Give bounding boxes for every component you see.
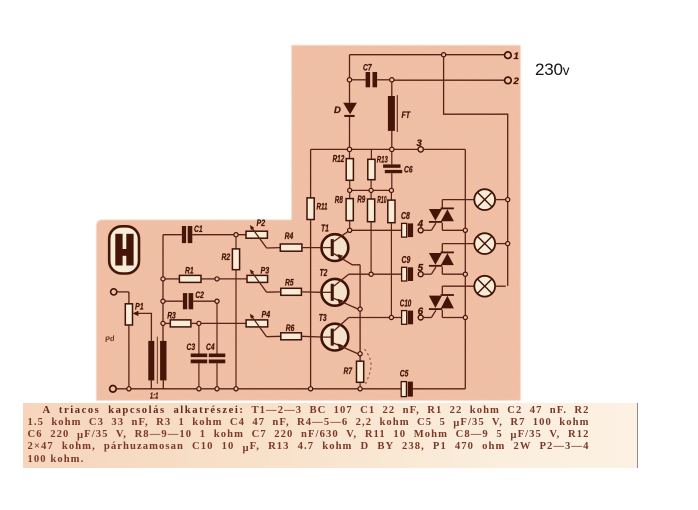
wire: FT down to node [391,131,393,147]
junction: C2 left [161,299,165,303]
svg-text:R13: R13 [377,155,388,166]
wire: to R10 [390,193,392,201]
triac 2 [429,252,454,267]
junction: lamp 2 on right rail [506,242,510,246]
junction: R1 right / C4 line top [215,277,219,281]
wire: R2 down to bottom rail [235,270,237,387]
junction: C3 on bottom rail [197,387,201,391]
wire: P1 bottom to rail [128,325,130,387]
wire: triac 3 bottom to common line [442,317,463,319]
svg-text:1: 1 [514,51,519,62]
potentiometer P4 [246,320,268,327]
caption strip [23,403,639,468]
svg-text:FT: FT [402,110,411,121]
svg-text:R7: R7 [344,366,353,377]
diode D [343,103,357,115]
transistor T1 [322,230,361,264]
wire: R10 down to T3 collector node [390,223,392,316]
junction: R2 on bottom rail [234,387,238,391]
wire: input terminal to P1 top [117,291,129,293]
wire: triac 3 to lamp 3 [442,285,474,287]
capacitor C7 right plate [373,72,378,87]
resistor R4 [280,244,302,251]
junction: P1 on bottom rail [127,387,131,391]
junction: R2 top on C1 wire [234,233,238,237]
svg-text:P1: P1 [135,302,144,313]
node 4 [418,228,423,233]
caption text [28,405,590,417]
capacitor C2 left plate [183,293,187,309]
wire: R12 bottom [349,180,351,188]
junction: R9 line on row 2 [369,272,373,276]
wire: left vertical line C1-corner to transformer [162,235,164,341]
wire: triac 1 top terminal [441,200,443,208]
wire: C6 down to junction row [391,173,393,188]
wire: T2 collector row to C9 [349,273,402,275]
potentiometer P3 [247,275,268,282]
svg-text:R11: R11 [317,202,328,213]
capacitor C4 top plate [209,354,226,358]
wire: triac 1 bottom to common line [442,229,463,231]
wire: junction to R2 [235,237,237,249]
wire: node row down to R11 [310,149,312,198]
wire: node row between D and FT junctions [352,148,390,150]
junction: lamp 1 on right rail [506,198,510,202]
transformer Tr windings [148,337,166,384]
wire: C4 to bottom rail [216,363,218,386]
svg-text:C1: C1 [194,224,203,235]
resistor R7 [357,361,364,382]
wire: primary bottom to rail [150,380,152,388]
wire: P1 wiper from transformer primary [136,313,151,341]
svg-text:P2: P2 [257,218,266,229]
svg-text:C3: C3 [187,342,196,353]
wire: left line to R1 [165,278,179,280]
junction: triac 3 on common line [463,315,467,319]
wire: R8 to T1 collector node [349,221,351,229]
wire: C1 to P2 [192,234,246,236]
wire: diode cathode down to node [349,117,351,147]
transistor T3 [322,318,359,354]
transistor T2 [322,274,359,309]
svg-text:C6: C6 [404,165,413,176]
svg-text:1:1: 1:1 [150,391,159,400]
wire: node row left arm to R11 drop [311,148,348,150]
svg-text:Pd: Pd [104,334,115,344]
junction: R7 on bottom rail [358,387,362,391]
wire: R1 to junction [201,278,215,280]
svg-text:2: 2 [513,76,520,87]
lamp 1 [474,189,495,210]
svg-text:C7: C7 [363,63,372,74]
wire: C2 right lead [193,300,215,302]
wire: node 6 to triac 3 gate [423,317,431,319]
wire: second rail to terminal 2 [394,79,505,81]
svg-text:R5: R5 [285,278,294,289]
wire: P3 wiper to R5 [267,291,281,293]
wire: to R12 top [349,152,351,159]
capacitor C10 [402,311,407,325]
wire: lamp 3 to right rail [495,285,506,287]
resistor R13 [368,159,375,179]
wire: C7 right node down to FT [391,82,393,96]
svg-text:T2: T2 [320,268,328,279]
wire: T1 collector row to C8 [352,229,402,231]
junction: diode bottom node [347,147,351,151]
node 6 [418,315,423,320]
junction: triac 1 on common line [463,228,467,232]
wire: junction to P3 [219,278,247,280]
junction C6/R10 [389,188,393,192]
wire: R9 down to T2 collector node [370,222,372,272]
wire: node row toward node 3 [394,148,418,150]
wire: lamp 1 to right rail [495,199,506,201]
wire: left line to R3 [165,322,170,324]
scan grain overlay [96,45,520,400]
svg-text:R3: R3 [167,311,176,322]
wire: bottom rail right of C5 [413,388,465,390]
wire: triac 2 to lamp 2 [442,243,474,245]
capacitor C1 right plate [188,226,193,243]
fuse/coil FT body [388,96,395,131]
wire: triac 2 bottom to common line [442,273,463,275]
wire: right vertical line (triac common) [464,149,466,388]
capacitor C5 [401,382,406,397]
wire: secondary bottom to rail [162,380,164,388]
svg-text:3: 3 [417,138,423,149]
junction: R3 left [161,321,165,325]
wire: left line to C2 [165,300,183,302]
wire: junction to P4 [201,322,246,324]
svg-text:T1: T1 [321,223,329,234]
wire: R7 to bottom rail [359,382,361,386]
resistor R1 [179,275,201,282]
svg-text:C4: C4 [206,342,215,353]
wire: corner to C1 [163,234,182,236]
wire: triac 2 top terminal [441,244,443,252]
svg-text:T3: T3 [319,313,327,324]
capacitor C2 right plate [189,293,194,309]
junction: T1 collector node [348,228,352,232]
svg-text:P3: P3 [261,265,270,276]
capacitor C8 [402,223,407,237]
svg-text:5: 5 [418,263,424,274]
wire: C7 left lead [352,79,366,81]
node 3 [418,147,423,152]
wire: C3 to bottom rail [198,363,200,386]
junction on top rail [442,53,446,57]
wire: R5 to T2 base [301,291,321,293]
svg-text:R1: R1 [185,265,194,276]
wire: drop from top rail to C7 left node [349,55,351,78]
capacitor C4 bottom plate [209,360,226,364]
wire: triac 2 bottom terminal [441,267,443,275]
resistor R10 [388,200,395,223]
svg-text:R6: R6 [286,323,295,334]
wire: node 3 to right drop line [423,148,465,150]
lamp 2 [474,233,495,254]
capacitor C3 bottom plate [191,360,208,364]
capacitor C3 top plate [191,354,208,358]
wire: node 5 to triac 2 gate [423,273,431,275]
resistor R8 [346,199,353,221]
junction: T3 emitter on bus [358,352,362,356]
svg-text:D: D [334,105,341,116]
terminal 2 [505,77,512,84]
wire: bottom rail left of C5 [116,388,401,390]
wire: node 4 to triac 1 gate [423,229,431,231]
svg-text:4: 4 [417,219,424,230]
input terminal top-left [111,289,117,295]
junction: R1 left [161,277,165,281]
wire: junction to diode anode [349,82,351,103]
wire: P2 wiper to R4 [267,247,281,249]
svg-text:C10: C10 [400,298,412,309]
resistor R6 [281,333,302,340]
triac 3 [429,294,454,310]
resistor R11 [307,198,314,220]
wire: down to P1 [128,292,130,304]
pencil mark: dashed arc beside R7 [365,349,372,385]
resistor R9 [368,199,375,222]
junction: R3 right / C3 top [197,321,201,325]
resistor R3 [170,320,191,327]
node: C7 left junction [347,78,351,82]
wire: triac 1 bottom terminal [441,223,443,231]
junction: R11 on bottom rail [309,387,313,391]
capacitor C1 left plate [182,226,186,243]
wire: P4 wiper to R6 [267,335,281,337]
node 5 [418,272,423,277]
wire: jog from top-rail junction down and right to lamp rail [444,55,508,286]
capacitor C6 top plate [383,164,400,167]
svg-text:R10: R10 [377,195,386,206]
wire: R13 bottom [370,180,372,189]
wire: junction down to C3 [198,326,200,354]
capacitor C6 bottom plate [385,170,402,173]
wire: C7 right lead [377,79,390,81]
wire: triac 1 to lamp 1 [442,199,474,201]
svg-text:R12: R12 [333,154,345,165]
resistor R5 [281,288,302,295]
resistor R2 [232,249,239,270]
capacitor C9 [402,267,407,281]
wire: R11 down to bottom rail [310,220,312,387]
junction: triac 2 on common line [463,272,467,276]
junction: R10 line on row 3 [389,315,393,319]
svg-text:C2: C2 [195,290,204,301]
svg-text:R4: R4 [285,231,294,242]
svg-text:C5: C5 [400,369,409,380]
input terminal bottom-left [110,386,117,393]
lamp 3 [474,276,495,297]
capacitor C7 left plate [366,72,371,87]
junction: FT bottom node [390,147,394,151]
terminal 1 [505,52,512,59]
potentiometer P2 [246,231,267,238]
svg-text:R9: R9 [357,195,365,206]
junction: T2 emitter on bus [358,307,362,311]
junction R12/R8 [348,188,352,192]
potentiometer P1 [125,304,132,325]
wire: emitter bus down to R7 [359,265,361,361]
svg-text:6: 6 [418,306,424,317]
triac 1 [429,208,454,223]
wire: junction row y=190.4 [352,189,369,191]
junction R13/R9 [369,188,373,192]
svg-text:C9: C9 [402,255,411,266]
wire: T3 collector row to C10 [349,317,402,319]
wire: top rail to terminal 1 [350,54,505,56]
node: C7 right junction [390,78,394,82]
wire: FT node down to C6 [391,152,393,165]
svg-text:R2: R2 [222,252,231,263]
wire: R3 right lead [191,322,197,324]
230v annotation [535,61,569,78]
junction: C2 right [215,299,219,303]
wire: R4 to T1 base [302,247,322,249]
junction: C4 on bottom rail [215,387,219,391]
svg-text:C8: C8 [401,211,410,222]
scanned magazine clipping background (L-shaped pink region) [96,45,520,400]
wire: lamp 2 to right rail [495,243,506,245]
svg-text:P4: P4 [262,310,271,321]
logo H badge [109,226,139,273]
wire: to R9 [370,193,372,200]
wire: triac 3 bottom terminal [441,310,443,318]
wire: C2 junction down to C4 [216,303,218,353]
wire: to R8 [349,193,351,199]
wire: R6 to T3 base [301,335,321,338]
FT side stripe [396,95,398,132]
wire: triac 3 top terminal [441,286,443,294]
svg-text:R8: R8 [335,195,343,206]
wire: stub to R13 top [370,149,372,159]
resistor R12 [346,159,353,181]
